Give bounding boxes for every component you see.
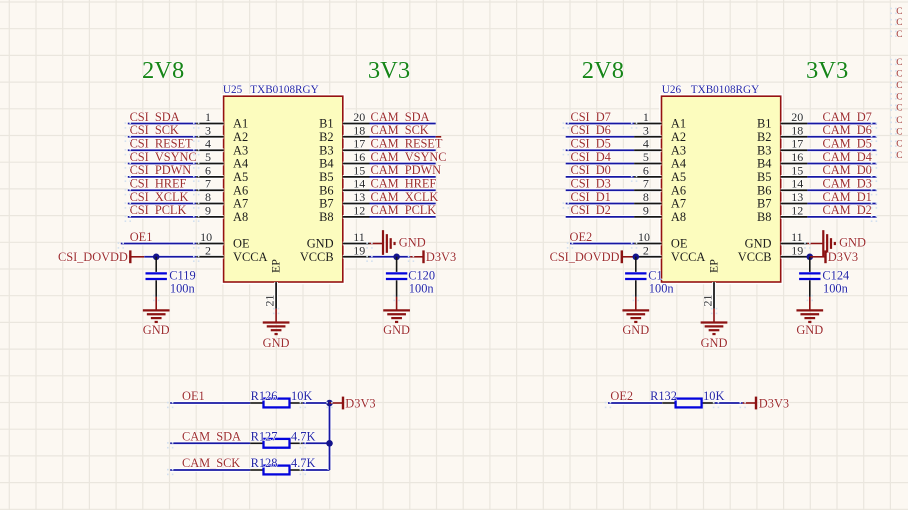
wire net CAM_D0	[807, 175, 876, 179]
resistor R127	[250, 439, 303, 448]
svg-text:C: C	[896, 151, 902, 161]
svg-text:R126: R126	[251, 389, 278, 403]
svg-text:B6: B6	[757, 183, 771, 197]
svg-text:C: C	[896, 127, 902, 137]
svg-text:A6: A6	[233, 183, 248, 197]
power port CSI_DOVDD (U26)	[550, 250, 622, 264]
wire net CSI_D3	[566, 188, 634, 192]
pin 20 (B1)	[781, 110, 808, 124]
truncated net label C... at right edge row 9	[890, 116, 902, 126]
svg-text:D3V3: D3V3	[759, 396, 789, 410]
wire net CSI_D1	[566, 202, 634, 206]
svg-text:EP: EP	[268, 259, 282, 273]
wire net CSI_D2	[566, 215, 634, 219]
pin 16 (B4)	[781, 150, 808, 164]
wire net CSI_XCLK	[128, 202, 196, 206]
svg-text:8: 8	[643, 190, 649, 204]
capacitor C1	[625, 257, 646, 297]
power port D3V3 (U25)	[424, 250, 457, 264]
pin 5 (A4)	[196, 150, 223, 164]
svg-text:16: 16	[791, 150, 803, 164]
svg-text:C: C	[896, 7, 902, 17]
svg-text:CSI_DOVDD: CSI_DOVDD	[58, 250, 128, 264]
svg-text:A3: A3	[233, 143, 248, 157]
pin 7 (A6)	[196, 177, 223, 191]
pin 7 (A6)	[634, 177, 661, 191]
resistor R126	[250, 399, 303, 408]
svg-text:C: C	[896, 69, 902, 79]
svg-text:100n: 100n	[170, 281, 195, 295]
pin 21 (EP)	[700, 282, 714, 309]
wire D3V3 stub (R132)	[743, 402, 756, 404]
svg-text:B3: B3	[319, 143, 333, 157]
svg-text:1: 1	[643, 110, 649, 124]
svg-text:3V3: 3V3	[806, 57, 848, 84]
svg-text:GND: GND	[701, 336, 728, 350]
svg-text:C: C	[896, 81, 902, 91]
svg-text:A1: A1	[671, 117, 686, 131]
wire pin11 to ground	[807, 243, 823, 245]
pin 16 (B4)	[343, 150, 370, 164]
svg-text:15: 15	[791, 163, 803, 177]
svg-text:U26: U26	[662, 84, 682, 96]
wire net CSI_PCLK	[128, 215, 196, 219]
wire R126 to junction	[303, 401, 330, 405]
svg-text:GND: GND	[399, 235, 426, 249]
truncated net label C... at right edge row 2	[890, 18, 902, 28]
svg-text:A8: A8	[671, 210, 686, 224]
wire net CSI_D6	[566, 135, 634, 139]
power port CSI_DOVDD (U25)	[58, 250, 130, 264]
truncated net label C... at right edge row 7	[890, 92, 902, 102]
ground symbol at pin 11 (rotated)	[383, 230, 395, 257]
svg-text:17: 17	[353, 137, 365, 151]
pin 8 (A7)	[634, 190, 661, 204]
ground symbol below EP	[263, 323, 290, 335]
truncated net label C... at right edge row 3	[890, 30, 902, 40]
resistor R132	[662, 399, 715, 408]
truncated net label C... at right edge row 11	[890, 140, 902, 150]
pin 8 (A7)	[196, 190, 223, 204]
svg-text:9: 9	[643, 203, 649, 217]
capacitor C124	[799, 257, 820, 297]
svg-text:CSI_DOVDD: CSI_DOVDD	[550, 250, 620, 264]
svg-text:19: 19	[791, 243, 803, 257]
wire net CAM_D5	[807, 148, 876, 152]
svg-text:A4: A4	[671, 157, 686, 171]
svg-text:B2: B2	[319, 130, 333, 144]
pin 3 (A2)	[634, 123, 661, 137]
pin 14 (B6)	[343, 177, 370, 191]
svg-text:B7: B7	[757, 197, 771, 211]
svg-text:C1: C1	[648, 268, 662, 282]
svg-text:20: 20	[791, 110, 803, 124]
vertical wire joining pull-ups	[328, 403, 332, 470]
svg-text:5: 5	[643, 150, 649, 164]
wire net OE1 (pull-up row)	[170, 401, 250, 405]
svg-text:TXB0108RGY: TXB0108RGY	[250, 84, 318, 96]
U25 designator and comment text	[223, 84, 319, 96]
svg-text:OE2: OE2	[610, 389, 633, 403]
wire net CAM_D3	[807, 188, 876, 192]
pin 13 (B7)	[781, 190, 808, 204]
pin 4 (A3)	[634, 137, 661, 151]
svg-text:16: 16	[353, 150, 365, 164]
wire R128 to vertical bus	[303, 468, 330, 472]
pin 6 (A5)	[634, 163, 661, 177]
svg-text:C: C	[896, 92, 902, 102]
wire pin11 to ground	[370, 243, 384, 245]
pin 11 (GND)	[343, 230, 370, 244]
pin 2 (VCCA)	[196, 243, 223, 257]
svg-text:13: 13	[353, 190, 365, 204]
svg-text:B8: B8	[757, 210, 771, 224]
svg-text:C: C	[896, 104, 902, 114]
power port D3V3 (pull-ups)	[343, 396, 376, 410]
svg-text:100n: 100n	[823, 281, 848, 295]
pin 12 (B8)	[343, 203, 370, 217]
svg-text:14: 14	[353, 177, 365, 191]
svg-text:13: 13	[791, 190, 803, 204]
wire net CSI_PDWN	[128, 175, 196, 179]
wire net OE2 (pull-up row)	[608, 401, 662, 405]
wire net CSI_SDA	[128, 122, 196, 126]
svg-text:4: 4	[643, 137, 649, 151]
wire CSI_DOVDD stub (U26)	[622, 256, 636, 258]
capacitor C120	[386, 257, 407, 297]
svg-text:B5: B5	[757, 170, 771, 184]
wire D3V3 port stub (U25)	[410, 256, 423, 258]
pin 20 (B1)	[343, 110, 370, 124]
svg-text:C: C	[896, 140, 902, 150]
svg-text:19: 19	[353, 243, 365, 257]
svg-text:B3: B3	[757, 143, 771, 157]
svg-text:A4: A4	[233, 157, 248, 171]
pin 4 (A3)	[196, 137, 223, 151]
svg-text:C120: C120	[408, 268, 435, 282]
wire net CSI_D5	[566, 148, 634, 152]
wire net CAM_SDA (pull-up row)	[170, 441, 250, 445]
ground below C120	[396, 297, 398, 310]
pin 2 (VCCA)	[634, 243, 661, 257]
wire net CSI_HREF	[128, 188, 196, 192]
svg-text:OE: OE	[233, 237, 250, 251]
svg-text:10K: 10K	[703, 389, 724, 403]
svg-text:21: 21	[700, 295, 714, 307]
pin 17 (B3)	[343, 137, 370, 151]
wire R127 to junction	[303, 441, 330, 445]
pin 10 (OE)	[196, 230, 223, 244]
power port D3V3 (U26)	[826, 250, 859, 264]
wire net CAM_D1	[807, 202, 876, 206]
svg-text:D3V3: D3V3	[426, 250, 456, 264]
wire VCCB to D3V3	[370, 255, 411, 259]
truncated net label C... at right edge row 10	[890, 127, 902, 137]
pin 9 (A8)	[196, 203, 223, 217]
svg-text:5: 5	[205, 150, 211, 164]
svg-text:3: 3	[643, 123, 649, 137]
IC U25 TXB0108RGY level shifter body	[224, 96, 343, 282]
ground symbol below EP	[701, 323, 728, 335]
svg-text:A1: A1	[233, 117, 248, 131]
ground below C124	[809, 297, 811, 310]
wire net CAM_SCK (pull-up row)	[170, 468, 250, 472]
ground below C119	[155, 297, 157, 310]
ground symbol below C120	[383, 310, 410, 322]
svg-text:21: 21	[262, 295, 276, 307]
svg-text:15: 15	[353, 163, 365, 177]
svg-text:3V3: 3V3	[368, 57, 410, 84]
svg-text:A2: A2	[233, 130, 248, 144]
svg-text:10K: 10K	[291, 389, 312, 403]
truncated net label C... at right edge row 5	[890, 69, 902, 79]
svg-text:2V8: 2V8	[142, 57, 184, 84]
wire net CAM_D4	[807, 162, 876, 166]
pin 10 (OE)	[634, 230, 661, 244]
svg-text:B5: B5	[319, 170, 333, 184]
wire pin19 to junction (U26)	[807, 256, 809, 258]
svg-text:9: 9	[205, 203, 211, 217]
svg-text:10: 10	[200, 230, 212, 244]
svg-text:C124: C124	[822, 268, 849, 282]
svg-text:3: 3	[205, 123, 211, 137]
svg-text:7: 7	[205, 177, 211, 191]
wire R132 to D3V3	[715, 401, 743, 405]
junction at C119	[153, 253, 160, 260]
truncated net label C... at right edge row 8	[890, 104, 902, 114]
wire net CAM_SDA	[370, 122, 436, 126]
svg-text:CAM_SDA: CAM_SDA	[182, 430, 241, 444]
svg-text:C: C	[896, 116, 902, 126]
junction pull-up row2	[326, 440, 333, 447]
svg-text:OE1: OE1	[182, 389, 205, 403]
svg-text:11: 11	[353, 230, 365, 244]
ground stub below EP	[275, 309, 277, 323]
svg-text:GND: GND	[745, 237, 772, 251]
svg-text:VCCB: VCCB	[300, 250, 334, 264]
svg-text:8: 8	[205, 190, 211, 204]
pin 17 (B3)	[781, 137, 808, 151]
svg-text:2V8: 2V8	[582, 57, 624, 84]
pin 19 (VCCB)	[781, 243, 808, 257]
svg-text:A7: A7	[671, 197, 686, 211]
svg-text:6: 6	[643, 163, 649, 177]
svg-text:B1: B1	[757, 117, 771, 131]
svg-text:4.7K: 4.7K	[291, 430, 315, 444]
wire net CSI_D4	[566, 162, 634, 166]
wire net CSI_D0	[566, 175, 634, 179]
svg-text:2: 2	[643, 243, 649, 257]
power port D3V3 (R132)	[756, 396, 789, 410]
svg-text:GND: GND	[796, 323, 823, 337]
junction at C124	[807, 253, 814, 260]
pale blue connection markers	[118, 122, 878, 475]
svg-text:12: 12	[353, 203, 365, 217]
pin 3 (A2)	[196, 123, 223, 137]
svg-text:7: 7	[643, 177, 649, 191]
svg-text:B8: B8	[319, 210, 333, 224]
svg-text:TXB0108RGY: TXB0108RGY	[691, 84, 759, 96]
svg-text:A5: A5	[671, 170, 686, 184]
truncated net label C... at right edge row 6	[890, 81, 902, 91]
pin 18 (B2)	[343, 123, 370, 137]
junction pull-up row1	[326, 400, 333, 407]
svg-text:2: 2	[205, 243, 211, 257]
wire net CAM_D2	[807, 215, 876, 219]
svg-text:B7: B7	[319, 197, 333, 211]
svg-text:4: 4	[205, 137, 211, 151]
svg-text:C: C	[896, 30, 902, 40]
U26 designator and comment text	[662, 84, 759, 96]
svg-text:EP: EP	[706, 259, 720, 273]
svg-text:12: 12	[791, 203, 803, 217]
wire net CAM_HREF	[370, 188, 436, 192]
pin 9 (A8)	[634, 203, 661, 217]
svg-text:VCCA: VCCA	[671, 250, 705, 264]
svg-text:10: 10	[638, 230, 650, 244]
svg-text:B2: B2	[757, 130, 771, 144]
svg-text:1: 1	[205, 110, 211, 124]
wire net CAM_XCLK	[370, 202, 436, 206]
pin 13 (B7)	[343, 190, 370, 204]
pin 1 (A1)	[196, 110, 223, 124]
wire CSI_DOVDD to VCCA	[144, 255, 196, 259]
svg-text:4.7K: 4.7K	[291, 456, 315, 470]
svg-text:GND: GND	[622, 323, 649, 337]
svg-text:A3: A3	[671, 143, 686, 157]
pin 18 (B2)	[781, 123, 808, 137]
pin 5 (A4)	[634, 150, 661, 164]
svg-text:GND: GND	[383, 323, 410, 337]
svg-text:D3V3: D3V3	[345, 396, 375, 410]
svg-text:C: C	[896, 18, 902, 28]
svg-text:VCCB: VCCB	[738, 250, 772, 264]
svg-text:GND: GND	[143, 323, 170, 337]
svg-text:100n: 100n	[649, 281, 674, 295]
svg-text:A7: A7	[233, 197, 248, 211]
svg-text:C: C	[896, 58, 902, 68]
wire net OE1	[121, 242, 196, 246]
svg-text:A5: A5	[233, 170, 248, 184]
wire net OE2	[570, 242, 634, 246]
svg-text:U25: U25	[223, 84, 243, 96]
svg-text:R127: R127	[251, 430, 278, 444]
svg-text:A8: A8	[233, 210, 248, 224]
pin 11 (GND)	[781, 230, 808, 244]
svg-text:B4: B4	[319, 157, 333, 171]
ground symbol below C119	[143, 310, 170, 322]
pin 6 (A5)	[196, 163, 223, 177]
truncated net label C... at right edge row 12	[890, 151, 902, 161]
pin 15 (B5)	[343, 163, 370, 177]
capacitor C119	[146, 257, 167, 297]
svg-text:B1: B1	[319, 117, 333, 131]
svg-text:R132: R132	[650, 389, 677, 403]
pin 15 (B5)	[781, 163, 808, 177]
pin 21 (EP)	[262, 282, 276, 309]
pin 19 (VCCB)	[343, 243, 370, 257]
svg-text:17: 17	[791, 137, 803, 151]
svg-text:OE: OE	[671, 237, 688, 251]
wire D3V3 stub (pull-ups)	[330, 402, 344, 404]
svg-text:R128: R128	[251, 456, 278, 470]
wire net CAM_PDWN	[370, 175, 436, 179]
wire net CSI_SCK	[128, 135, 196, 139]
svg-text:A2: A2	[671, 130, 686, 144]
wire net CAM_D7	[807, 122, 876, 126]
svg-text:GND: GND	[307, 237, 334, 251]
wire net CAM_D6	[807, 135, 876, 139]
svg-text:11: 11	[791, 230, 803, 244]
svg-text:18: 18	[791, 123, 803, 137]
svg-text:CAM_SCK: CAM_SCK	[182, 456, 240, 470]
wire net CSI_RESET	[128, 148, 196, 152]
svg-text:18: 18	[353, 123, 365, 137]
svg-text:20: 20	[353, 110, 365, 124]
pin 1 (A1)	[634, 110, 661, 124]
svg-text:100n: 100n	[409, 281, 434, 295]
svg-text:B6: B6	[319, 183, 333, 197]
ground symbol at pin 11 (rotated)	[823, 230, 835, 257]
wire CSI_DOVDD port stub	[130, 256, 144, 258]
wire net CAM_SCK	[370, 135, 436, 139]
pin 12 (B8)	[781, 203, 808, 217]
wire net CSI_D7	[566, 122, 634, 126]
resistor R128	[250, 466, 303, 475]
svg-text:6: 6	[205, 163, 211, 177]
red wire stub at CAM_SCK	[436, 136, 442, 138]
wire net CSI_VSYNC	[128, 162, 196, 166]
svg-text:14: 14	[791, 177, 803, 191]
wire net CAM_VSYNC	[370, 162, 436, 166]
ground symbol below C124	[796, 310, 823, 322]
wire net CAM_PCLK	[370, 215, 436, 219]
junction at C120	[393, 253, 400, 260]
svg-text:GND: GND	[839, 235, 866, 249]
pin 14 (B6)	[781, 177, 808, 191]
svg-text:A6: A6	[671, 183, 686, 197]
ground below C1	[635, 297, 637, 310]
svg-text:GND: GND	[263, 336, 290, 350]
svg-text:B4: B4	[757, 157, 771, 171]
truncated net label C... at right edge row 1	[890, 7, 902, 17]
svg-text:VCCA: VCCA	[233, 250, 267, 264]
svg-text:D3V3: D3V3	[828, 250, 858, 264]
junction at C1	[633, 253, 640, 260]
wire D3V3 port stub (U26)	[810, 256, 826, 258]
IC U26 TXB0108RGY level shifter body	[662, 96, 781, 282]
wire net CAM_RESET	[370, 148, 436, 152]
ground symbol below C1	[622, 310, 649, 322]
svg-text:C119: C119	[169, 268, 195, 282]
ground stub below EP	[713, 309, 715, 323]
truncated net label C... at right edge row 4	[890, 58, 902, 68]
